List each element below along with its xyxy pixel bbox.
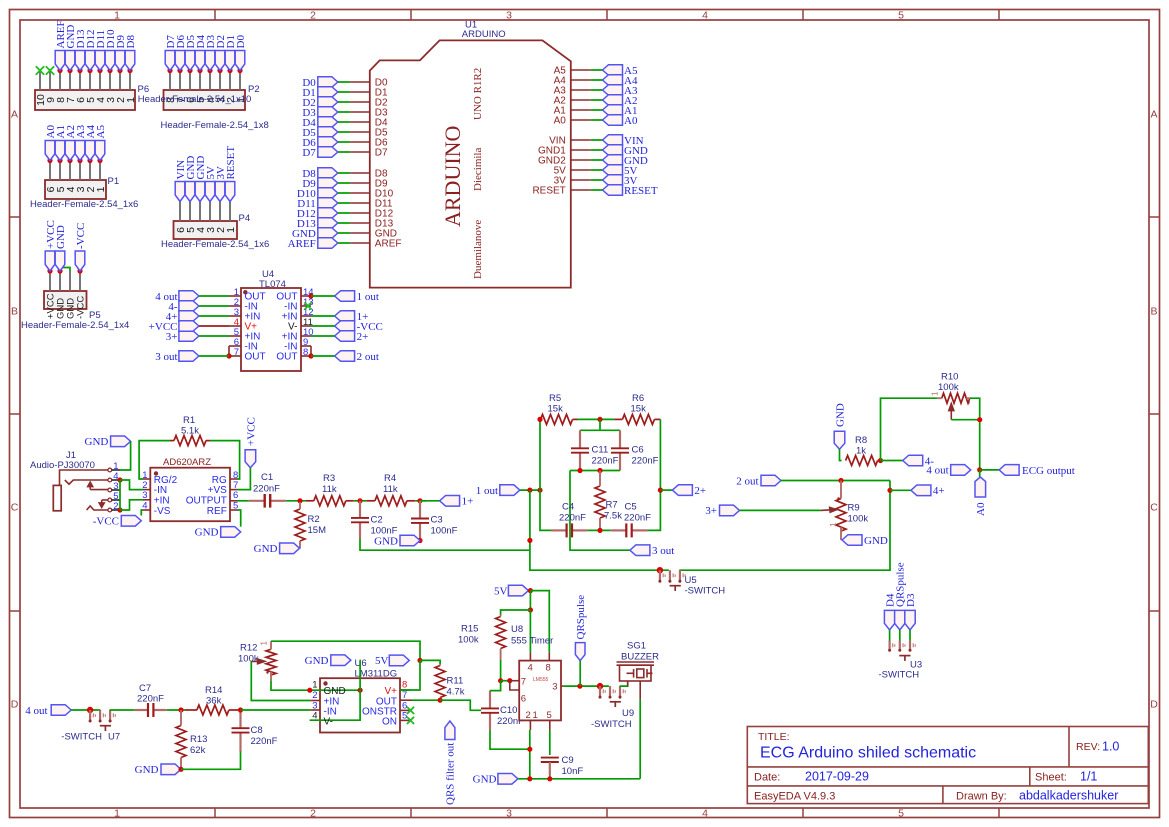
comparator U6 LM311DG body <box>320 678 400 732</box>
svg-text:5V: 5V <box>375 655 389 667</box>
U1 pin D9 (left) <box>350 182 370 184</box>
svg-text:AREF: AREF <box>288 238 316 250</box>
svg-text:D: D <box>11 699 19 711</box>
net flag +VCC on P5 <box>47 268 52 273</box>
junction on U4 pin 8 <box>308 353 313 358</box>
net flag 4- <box>903 455 923 466</box>
wire A3 to U1 <box>591 89 603 91</box>
buzzer SG1 symbol <box>617 662 655 681</box>
net flag -VCC at U2 pin4 <box>121 516 141 527</box>
J1 pin stubs black <box>112 469 120 471</box>
svg-text:GND: GND <box>254 543 278 555</box>
U4 pin 9 stub and tie to pin 8 <box>301 345 311 347</box>
svg-text:4.7k: 4.7k <box>447 687 465 698</box>
wire D4 to U1 <box>338 121 350 123</box>
capacitor C6 vertical <box>619 430 621 448</box>
U2 pin-1 marker dot <box>154 471 158 475</box>
net flag GND below U2 <box>221 527 241 538</box>
wire R15 bottom to pin7 node <box>500 660 502 681</box>
J1 pin3 contact line <box>90 489 108 491</box>
net flag GND at U6 <box>331 655 351 666</box>
wire GND to U1 <box>338 232 350 234</box>
no-connect X on P6 pin <box>36 66 44 74</box>
junction 4+ node <box>887 488 892 493</box>
left border ticks <box>10 216 20 218</box>
svg-text:100k: 100k <box>458 635 479 646</box>
wire vertical B R5 to C4 rail <box>540 419 551 530</box>
J1 ring switch arrow <box>99 500 104 508</box>
svg-text:100k: 100k <box>238 654 259 665</box>
wire pin5 to C9 <box>549 730 551 755</box>
svg-text:3 out: 3 out <box>155 351 177 363</box>
svg-text:220nF: 220nF <box>559 513 586 524</box>
wire A1 to U1 <box>591 109 603 111</box>
junction on U4 pin 7 <box>226 353 231 358</box>
svg-text:LM555: LM555 <box>533 677 549 683</box>
U9 switch T mark <box>610 701 621 703</box>
net flag D4 (vertical) <box>884 610 894 630</box>
bottom border ticks <box>214 808 216 818</box>
net flag 4- at U4 <box>179 301 199 312</box>
net flag 5V at U6 <box>389 655 409 666</box>
wire 5V to 555 pin8 <box>530 591 549 653</box>
svg-text:R7: R7 <box>606 500 618 511</box>
net flag D2 at U1 <box>318 97 338 108</box>
wire D13 to U1 <box>338 222 350 224</box>
wire 2+ branch <box>660 489 672 491</box>
svg-text:220nF: 220nF <box>632 456 659 467</box>
net flag A0 (vertical) <box>975 477 986 497</box>
capacitor C10 vertical <box>489 691 491 709</box>
net flag A3 at U1 <box>603 85 623 96</box>
svg-text:-SWITCH: -SWITCH <box>879 670 920 681</box>
capacitor C5 <box>611 529 626 531</box>
instrumentation amp U2 AD620ARZ body <box>150 468 230 522</box>
svg-text:3: 3 <box>552 682 557 693</box>
net flag D9 on P6 <box>117 68 122 73</box>
net flag GND at U1 <box>603 155 623 166</box>
svg-text:36k: 36k <box>206 696 222 707</box>
wire R12 bottom to U6 pin1 <box>271 681 310 690</box>
net flag D2 on P2 <box>217 68 222 73</box>
wire C1 to node <box>286 500 306 502</box>
svg-text:15M: 15M <box>308 525 327 536</box>
capacitor C3 vertical <box>419 501 421 519</box>
net flag GND on P5 <box>57 268 62 273</box>
wire 4- to U4 <box>199 305 229 307</box>
junction at U9 <box>597 683 603 689</box>
svg-text:GND: GND <box>864 535 888 547</box>
U1 pin D10 (left) <box>350 192 370 194</box>
wire A0 to U1 <box>591 119 603 121</box>
U4 pin 11 stub <box>301 325 311 327</box>
svg-text:1: 1 <box>829 522 838 527</box>
svg-text:C: C <box>11 502 19 514</box>
capacitor C9 vertical <box>541 757 559 759</box>
svg-text:R1: R1 <box>183 415 195 426</box>
connector P5 4-pin header body <box>44 291 87 309</box>
svg-text:ARDUINO: ARDUINO <box>462 29 506 40</box>
svg-text:OUT: OUT <box>245 352 266 363</box>
svg-text:220nF: 220nF <box>592 456 619 467</box>
wire A4 to U1 <box>591 79 603 81</box>
resistor R11 vertical <box>435 666 445 698</box>
net flag 3 out at U4 <box>179 351 199 362</box>
U6 pin7 stub <box>400 699 412 701</box>
svg-text:Sheet:: Sheet: <box>1035 772 1067 784</box>
svg-text:OUT: OUT <box>276 352 297 363</box>
svg-text:R9: R9 <box>848 503 860 514</box>
J1 sleeve link to pin 1 <box>60 470 109 485</box>
svg-text:2: 2 <box>310 807 316 819</box>
junction internal GND tie <box>358 688 363 693</box>
wire 1 out to R5 branch <box>520 489 540 491</box>
wire C7 to R14 <box>167 709 186 711</box>
svg-text:-SWITCH: -SWITCH <box>685 586 726 597</box>
R10 wiper arrow <box>949 404 954 420</box>
svg-text:-IN: -IN <box>154 485 167 496</box>
wire 3 out to U4 pin 7 <box>199 355 229 357</box>
wire R4 to node C3 <box>415 500 426 502</box>
resistor R8 <box>846 456 878 466</box>
svg-text:1: 1 <box>260 641 269 646</box>
wire 1+ from U4 pin 12 <box>311 315 335 317</box>
U4 pin 7 stub <box>229 355 241 357</box>
wire GND flag to R8 <box>840 449 842 460</box>
svg-text:4 out: 4 out <box>926 465 948 477</box>
U1 pin D3 (left) <box>350 111 370 113</box>
svg-text:C7: C7 <box>139 683 151 694</box>
net flag D6 on P2 <box>177 68 182 73</box>
wire R6 right vertical down <box>647 419 660 530</box>
junction C1/R2/R3 <box>297 498 302 503</box>
svg-text:Drawn By:: Drawn By: <box>956 791 1007 803</box>
junction R5 left <box>537 417 542 422</box>
svg-text:U9: U9 <box>622 708 634 719</box>
junction R7 bottom <box>597 528 602 533</box>
svg-text:GND: GND <box>374 536 398 548</box>
svg-text:C1: C1 <box>261 472 273 483</box>
potentiometer R12 vertical <box>266 649 276 675</box>
wire GND flag to U2 pin5 REF <box>238 510 241 527</box>
svg-text:R8: R8 <box>855 435 867 446</box>
net flag A4 at U1 <box>603 75 623 86</box>
wire 2 out from U4 pin 8 <box>311 355 335 357</box>
svg-text:1/1: 1/1 <box>1080 770 1097 784</box>
svg-text:15k: 15k <box>548 404 564 415</box>
svg-text:RESET: RESET <box>532 186 565 197</box>
junction R11 bottom / OUT <box>438 698 443 703</box>
net flag GND below R9 <box>842 535 862 546</box>
U4 pin 13 stub <box>301 305 311 307</box>
svg-text:-SWITCH: -SWITCH <box>61 732 102 743</box>
svg-text:2: 2 <box>310 9 316 21</box>
svg-text:1: 1 <box>95 186 107 192</box>
U5 switch T mark <box>670 585 681 587</box>
U1 pin RESET (right) <box>571 189 591 191</box>
net flag D10 at U1 <box>318 188 338 199</box>
no-connect X on P6 pin <box>46 66 54 74</box>
junction R5/R6 middle node <box>597 417 602 422</box>
net flag GND at U1 <box>318 228 338 239</box>
svg-text:5V: 5V <box>494 585 508 597</box>
svg-text:C6: C6 <box>632 445 644 456</box>
wire C10 top to pin7 node <box>490 681 501 691</box>
wire J1 pin1 to GND flag <box>120 441 131 470</box>
net flag A0 at U1 <box>603 115 623 126</box>
junction on vertical A at GND line <box>527 538 532 543</box>
U1 pin D2 (left) <box>350 101 370 103</box>
header P2 pin stubs <box>169 71 171 91</box>
svg-text:R2: R2 <box>308 514 320 525</box>
svg-text:Header-Female-2.54_1x6: Header-Female-2.54_1x6 <box>30 199 138 210</box>
R10 wiper wire to output node <box>951 419 979 421</box>
svg-text:ON: ON <box>382 717 397 728</box>
svg-text:1: 1 <box>533 710 538 721</box>
svg-text:B: B <box>1150 306 1157 318</box>
net flag D5 on P2 <box>187 68 192 73</box>
header P1 pin stubs <box>49 161 51 181</box>
net flag 1 out at U4 <box>335 291 355 302</box>
svg-text:10nF: 10nF <box>562 766 584 777</box>
net flag 3+ at U4 <box>179 331 199 342</box>
junction 2+ on right vertical <box>658 488 663 493</box>
capacitor C7 <box>135 709 148 711</box>
svg-text:SG1: SG1 <box>627 641 646 652</box>
net flag GND above R8 (vertical) <box>834 431 845 449</box>
svg-text:D8: D8 <box>125 35 137 49</box>
svg-text:REF: REF <box>207 506 227 517</box>
net flag GND at R13 <box>161 764 181 775</box>
svg-text:REV:: REV: <box>1076 741 1100 753</box>
U5 contact tick marks <box>663 573 665 577</box>
svg-text:D3: D3 <box>905 593 917 607</box>
U6 pin5 stub <box>400 719 410 721</box>
svg-text:C11: C11 <box>592 445 609 456</box>
net flag D10 on P6 <box>107 68 112 73</box>
net flag D5 at U1 <box>318 127 338 138</box>
net flag AREF at U1 <box>318 238 338 249</box>
wire 4+ to U4 <box>199 315 229 317</box>
U1 pin A2 (right) <box>571 99 591 101</box>
net flag 2+ <box>672 485 692 496</box>
no-connect X on U6 pin5 <box>407 717 414 724</box>
svg-text:C5: C5 <box>625 502 637 513</box>
junction 1out/vertical A <box>527 488 532 493</box>
switch U5 contacts <box>657 567 663 573</box>
U1 pin GND (left) <box>350 232 370 234</box>
junction R15/C10/pin7 <box>498 678 503 683</box>
junction R13 bottom <box>178 767 183 772</box>
U4 pin 8 stub <box>301 355 311 357</box>
wire D3 to U1 <box>338 111 350 113</box>
wire node to 555 pin7 <box>501 680 510 682</box>
net flag D3 at U1 <box>318 107 338 118</box>
wire 1 out from U4 pin 14 <box>311 295 335 297</box>
wire 3V to U1 <box>591 179 603 181</box>
svg-text:7.5k: 7.5k <box>604 511 622 522</box>
SG1 right pin <box>639 681 641 700</box>
net flag 1+ at U4 <box>335 311 355 322</box>
svg-text:2 out: 2 out <box>357 351 379 363</box>
svg-text:TITLE:: TITLE: <box>758 731 790 743</box>
svg-text:A5: A5 <box>95 125 107 139</box>
svg-text:abdalkadershuker: abdalkadershuker <box>1019 789 1118 803</box>
svg-text:2+: 2+ <box>694 485 706 497</box>
net flag D6 at U1 <box>318 137 338 148</box>
svg-text:RESET: RESET <box>225 146 237 180</box>
net flag A4 on P1 <box>87 158 92 163</box>
J1 ring contact <box>87 506 108 510</box>
svg-text:Header-Female-2.54_1x10: Header-Female-2.54_1x10 <box>138 94 252 105</box>
svg-text:4: 4 <box>702 807 708 819</box>
wire vertical A down to lower rail <box>530 481 890 571</box>
net flag D3 on P2 <box>207 68 212 73</box>
555 pin4 top stub <box>529 653 531 661</box>
junction C10 rail <box>527 747 532 752</box>
junction 1out/vertical B <box>537 488 542 493</box>
net flag GND at C3 <box>400 535 420 546</box>
svg-text:R15: R15 <box>461 624 478 635</box>
wire +VCC to U4 pin 4 (red) <box>199 325 229 327</box>
svg-text:GND: GND <box>55 225 67 249</box>
resistor R13 vertical <box>176 726 186 758</box>
net flag 4+ at U4 <box>179 311 199 322</box>
wire U2 OUTPUT to C1 <box>238 500 249 502</box>
net flag -VCC at U4 <box>335 321 355 332</box>
svg-text:7: 7 <box>521 677 526 688</box>
U1 pin D0 (left) <box>350 81 370 83</box>
svg-text:11k: 11k <box>383 484 398 495</box>
resistor R4 <box>375 496 407 506</box>
wire C11/C6 bottom tee <box>570 470 620 472</box>
U1 pin A0 (right) <box>571 119 591 121</box>
wire R8 node up to R10 left <box>881 398 938 460</box>
svg-text:D0: D0 <box>235 35 247 49</box>
wire QRSpulse flag down to OUT line <box>579 661 581 687</box>
svg-text:1: 1 <box>125 97 137 103</box>
svg-text:Date:: Date: <box>754 772 780 784</box>
svg-text:C3: C3 <box>431 515 443 526</box>
junction C8 top <box>238 707 243 712</box>
svg-text:1 out: 1 out <box>357 291 379 303</box>
switch U9 contacts <box>609 685 619 688</box>
wire 4+ branch <box>890 489 911 491</box>
svg-text:8: 8 <box>402 680 407 691</box>
net flag A1 at U1 <box>603 105 623 116</box>
J1 tip switch arrow <box>88 482 93 490</box>
wire GND to U1 <box>591 159 603 161</box>
net flag ECG output <box>999 465 1019 476</box>
net flag D12 at U1 <box>318 208 338 219</box>
U1 pin D12 (left) <box>350 212 370 214</box>
wire R14/C8 node to U6 -IN <box>241 709 311 711</box>
wire 555 OUT to buzzer switch <box>564 685 611 687</box>
R12 wiper arrow <box>251 659 264 664</box>
wire A5 to U1 <box>591 69 603 71</box>
svg-text:C4: C4 <box>562 502 574 513</box>
svg-text:A: A <box>1150 109 1157 121</box>
net flag 5V on P4 <box>205 182 215 202</box>
svg-text:1k: 1k <box>856 446 866 457</box>
svg-text:-SWITCH: -SWITCH <box>591 719 632 730</box>
net flag D4 at U1 <box>318 117 338 128</box>
net flag A0 on P1 <box>47 158 52 163</box>
U4 pin 12 stub <box>301 315 311 317</box>
U1 pin GND2 (right) <box>571 159 591 161</box>
R9 terminal marker dot <box>837 497 839 499</box>
svg-text:1: 1 <box>312 680 317 691</box>
net flag D13 on P6 <box>77 68 82 73</box>
svg-text:A0: A0 <box>554 116 567 127</box>
wire pins 2/1 to ground rail <box>529 730 531 779</box>
junction J1 pin 2 <box>117 507 122 512</box>
wire node to ECG output flag <box>980 469 999 471</box>
junction C11 bottom <box>577 468 582 473</box>
net flag D1 at U1 <box>318 87 338 98</box>
R6 left lead <box>614 418 622 420</box>
svg-text:555 Timer: 555 Timer <box>511 636 553 647</box>
svg-text:-VCC: -VCC <box>76 296 87 319</box>
svg-text:ECG Arduino shiled schematic: ECG Arduino shiled schematic <box>760 745 976 762</box>
svg-text:GND: GND <box>85 436 109 448</box>
J1 pin circles <box>108 468 112 472</box>
wire R13 bottom to C8 bottom <box>181 752 241 770</box>
svg-text:100k: 100k <box>848 514 869 525</box>
svg-text:Header-Female-2.54_1x6: Header-Female-2.54_1x6 <box>161 239 269 250</box>
junction R3/R4/C2 <box>357 498 362 503</box>
U6 pin6 stub <box>400 709 410 711</box>
net flag AREF on P6 <box>57 68 62 73</box>
P5 pin stubs <box>49 271 51 291</box>
wire J1 pin2 to U2 +IN <box>120 500 143 510</box>
net flag 2 out at U4 <box>335 351 355 362</box>
net flag D8 at U1 <box>318 168 338 179</box>
wire J1 pin4 to pin2 <box>119 480 121 510</box>
switch U3 pin stubs <box>889 630 891 641</box>
555 pin3 stub <box>561 685 564 687</box>
svg-text:+VCC: +VCC <box>149 321 178 333</box>
svg-text:220nF: 220nF <box>137 694 164 705</box>
svg-text:ECG output: ECG output <box>1022 465 1075 477</box>
U1 pin D8 (left) <box>350 172 370 174</box>
U1 pin A3 (right) <box>571 89 591 91</box>
wire GND to U1 <box>591 149 603 151</box>
wire AREF to U1 <box>338 242 350 244</box>
svg-text:220nF: 220nF <box>253 484 280 495</box>
svg-text:8: 8 <box>546 663 551 674</box>
svg-text:4: 4 <box>528 663 533 674</box>
wire C4 to C5 <box>588 529 611 531</box>
junction at 555 pin7 <box>507 678 512 683</box>
svg-text:1: 1 <box>114 807 120 819</box>
net flag GND on P4 <box>195 182 205 202</box>
timer U8 LM555 body <box>519 661 561 721</box>
wire 2 out line <box>781 480 890 482</box>
svg-text:-VCC: -VCC <box>75 223 87 249</box>
capacitor C8 vertical <box>239 710 241 728</box>
net flag GND at 555 <box>498 774 518 785</box>
555 pin6 tie elbow <box>510 681 519 690</box>
U4 pin-1 marker dot <box>243 290 247 294</box>
U4 pin 14 stub <box>301 295 311 297</box>
U4 pin 10 stub <box>301 335 311 337</box>
wire R1 right to U2 pin8 <box>210 441 240 479</box>
net flag 4 out at U4 <box>179 291 199 302</box>
wire 3+ to U4 <box>199 335 229 337</box>
potentiometer R10 <box>942 393 970 403</box>
net flag GND on P6 <box>67 68 72 73</box>
